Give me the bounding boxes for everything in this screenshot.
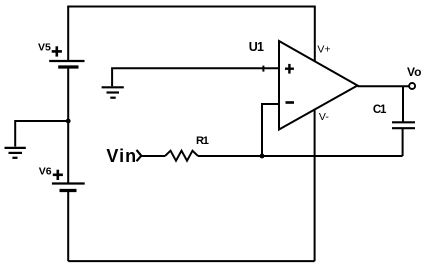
minus mark inside op-amp bbox=[286, 101, 295, 104]
wire: junction to V6 top bbox=[67, 121, 69, 183]
wire: V5 bottom lead to junction bbox=[67, 67, 69, 121]
output terminal circle Vo bbox=[409, 83, 415, 89]
wire: op-amp output to Vo terminal bbox=[358, 85, 409, 87]
capacitor C1 bbox=[392, 122, 415, 128]
battery V5 bbox=[49, 61, 84, 67]
svg-text:R1: R1 bbox=[196, 135, 209, 147]
plus polarity mark of V6 bbox=[53, 170, 63, 180]
wire: bottom rail bbox=[68, 260, 314, 262]
wire: junction to C1 bottom (crosses right rail) bbox=[262, 155, 403, 157]
input port chevron bbox=[137, 150, 142, 161]
resistor R1 zigzag bbox=[165, 151, 198, 161]
ground (left) bbox=[5, 148, 26, 158]
wire: junction to left ground bbox=[15, 121, 68, 147]
svg-text:V-: V- bbox=[319, 111, 329, 123]
wire: C1 top lead to output bbox=[402, 86, 404, 122]
wire: Vin to R1 bbox=[142, 155, 166, 157]
pin tick on non-inverting input bbox=[262, 66, 264, 72]
wire: C1 bottom lead bbox=[402, 128, 404, 156]
svg-text:V5: V5 bbox=[38, 42, 51, 54]
ground (op-amp + input) bbox=[102, 87, 124, 97]
wire: R1 to junction bbox=[198, 155, 262, 157]
plus mark inside op-amp bbox=[285, 64, 294, 74]
wire: feedback from junction up to inverting input bbox=[262, 104, 279, 156]
wire: top rail from V5 to V+ corner bbox=[67, 7, 315, 62]
svg-text:Vo: Vo bbox=[407, 65, 421, 79]
wire: ground to non-inverting input bbox=[112, 68, 279, 86]
op-amp U1 triangle bbox=[279, 41, 358, 130]
junction dot at battery midpoint bbox=[66, 119, 71, 124]
battery V6 bbox=[52, 184, 85, 191]
svg-text:C1: C1 bbox=[373, 104, 387, 116]
svg-text:V6: V6 bbox=[39, 165, 52, 177]
plus polarity mark of V5 bbox=[52, 46, 62, 56]
svg-text:Vin: Vin bbox=[106, 146, 137, 166]
svg-text:V+: V+ bbox=[317, 44, 330, 56]
wire: V5 top lead bbox=[67, 7, 69, 61]
wire: V6 bottom lead to bottom rail bbox=[67, 191, 69, 262]
wire: V- lead down right rail bbox=[314, 110, 316, 261]
svg-text:U1: U1 bbox=[249, 40, 264, 54]
junction dot at inverting node bbox=[260, 154, 265, 159]
